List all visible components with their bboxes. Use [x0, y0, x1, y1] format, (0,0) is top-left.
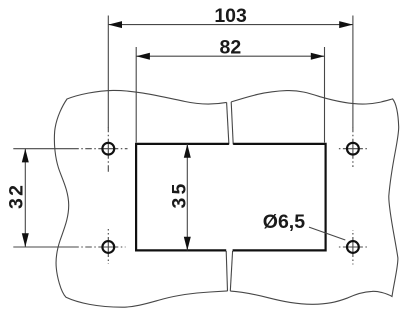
dimension line 32	[24, 149, 26, 247]
centerline vertical bottom-left hole	[107, 229, 109, 247]
break line bottom-right	[230, 251, 232, 291]
hole bottom-left	[102, 241, 114, 253]
break line bottom-left	[226, 251, 227, 291]
arrowhead 32 top	[22, 149, 29, 163]
centerline horizontal top-right hole	[338, 148, 353, 150]
extension line 103 left	[107, 16, 109, 129]
dimension line 82	[136, 55, 324, 57]
centerline horizontal bottom-right hole	[338, 246, 353, 248]
arrowhead 35 top	[184, 144, 191, 158]
extension line 32 bottom	[13, 246, 78, 248]
centerline vertical top-left hole	[107, 128, 109, 149]
hole top-left	[102, 143, 114, 155]
centerline horizontal bottom-left hole	[78, 246, 108, 248]
svg-text:82: 82	[220, 36, 242, 58]
svg-text:Ø6,5: Ø6,5	[263, 211, 305, 233]
arrowhead 103 right	[339, 21, 353, 28]
svg-text:103: 103	[214, 5, 247, 27]
centerline vertical top-right hole	[352, 128, 354, 149]
cutout rectangle (thick)	[136, 144, 326, 251]
svg-text:35: 35	[168, 180, 190, 208]
mounting holes	[102, 143, 358, 253]
extension line 82 right	[324, 47, 326, 143]
panel outline right piece	[230, 91, 398, 305]
arrowhead 82 right	[311, 53, 325, 60]
dimension line 103	[108, 24, 353, 26]
break line top-right	[231, 102, 233, 144]
centerlines (dash-dot)	[78, 128, 369, 265]
extension line 82 left	[135, 47, 137, 143]
hole bottom-right	[347, 241, 359, 253]
arrowheads	[22, 21, 353, 250]
centerline horizontal top-left hole	[78, 148, 108, 150]
arrowhead 82 left	[136, 53, 150, 60]
svg-text:32: 32	[5, 183, 27, 209]
panel outline left piece	[54, 90, 227, 307]
extension line 32 top	[13, 148, 78, 150]
centerline vertical bottom-right hole	[352, 230, 354, 247]
arrowhead 32 bottom	[22, 233, 29, 247]
hole top-right	[347, 143, 359, 155]
arrowhead 35 bottom	[184, 237, 191, 251]
dimension line 35	[186, 144, 188, 250]
break line top-left	[227, 102, 229, 144]
leader line for hole diameter	[309, 227, 345, 240]
extension line 103 right	[352, 16, 354, 129]
arrowhead 103 left	[108, 21, 122, 28]
